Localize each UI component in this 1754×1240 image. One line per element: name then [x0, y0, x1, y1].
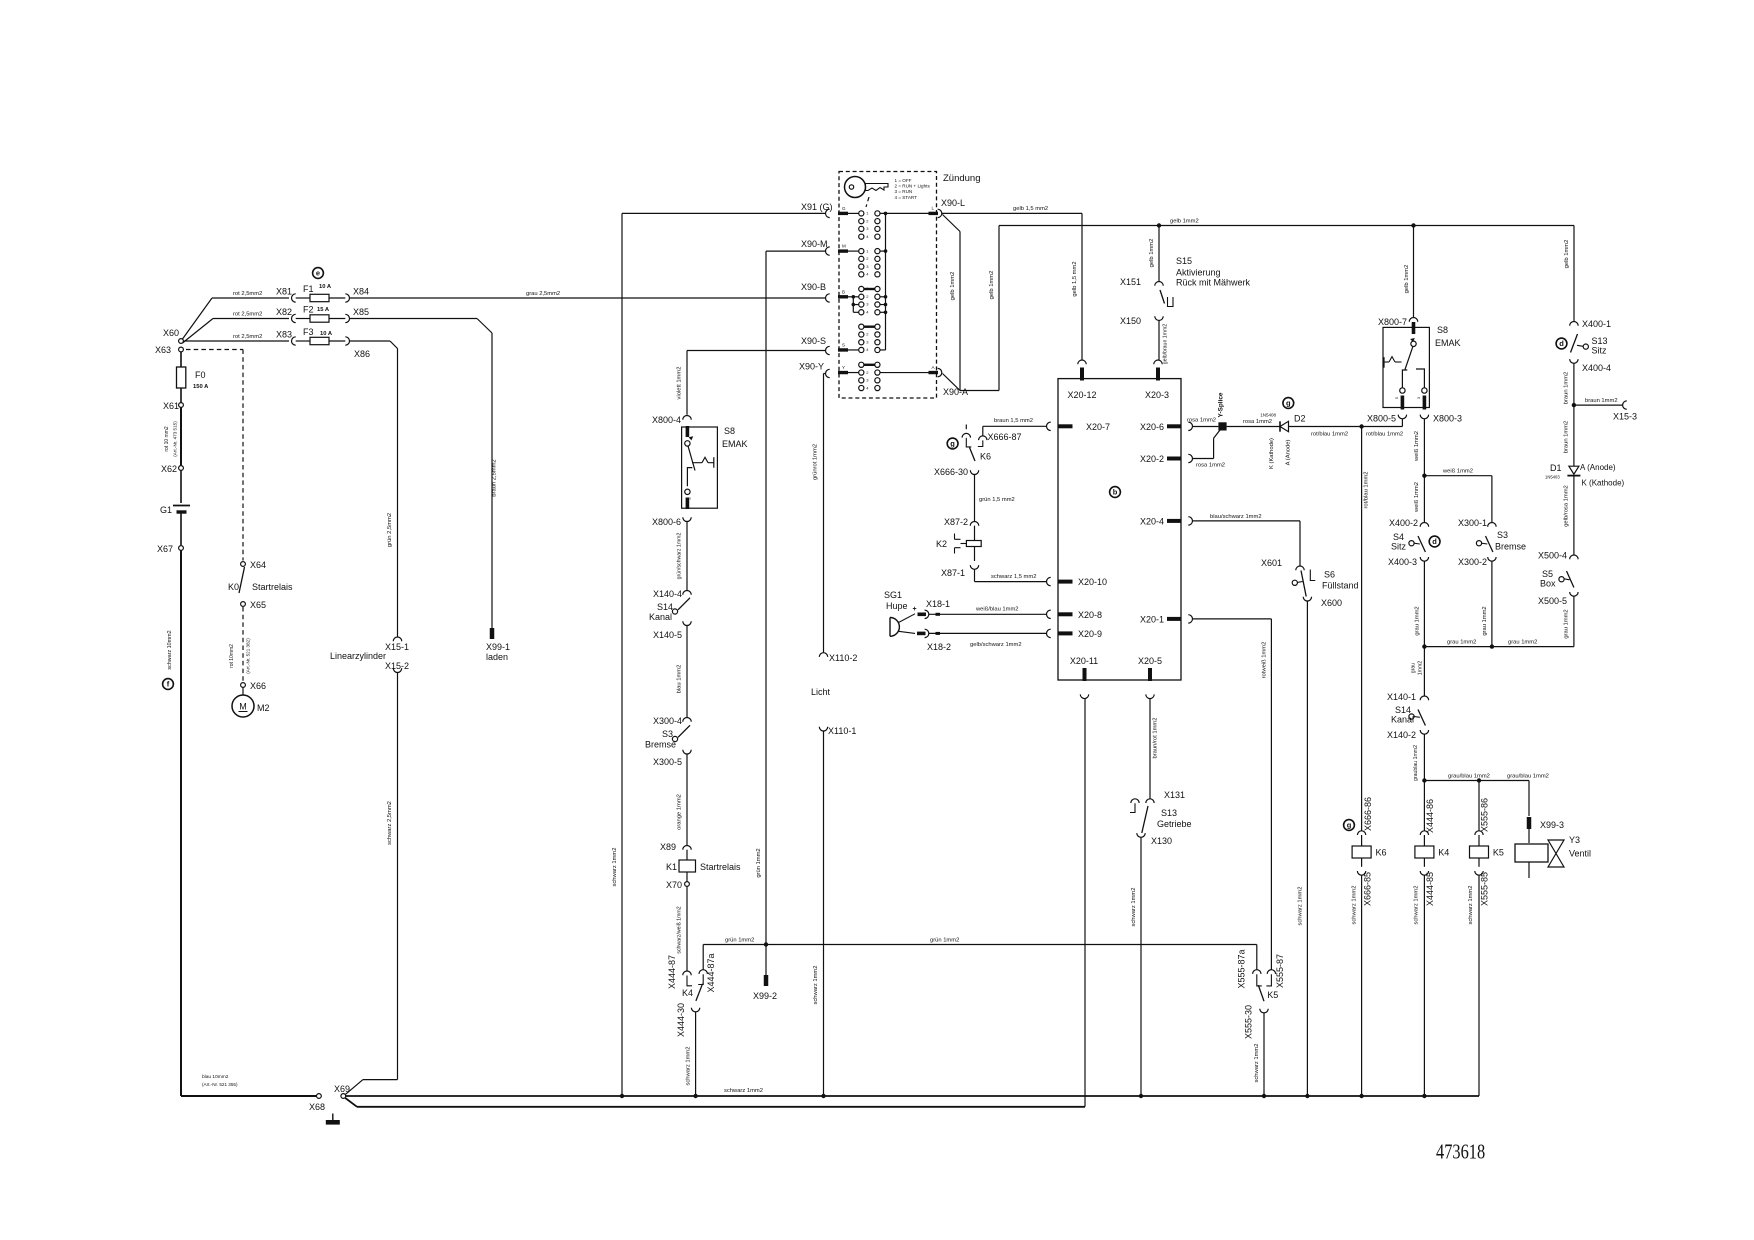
svg-text:1 = OFF: 1 = OFF [895, 178, 912, 183]
wire F3 to X86 [329, 340, 345, 342]
svg-text:Hupe: Hupe [886, 601, 908, 611]
wire X800-5 drop [1401, 419, 1403, 427]
node X65 [241, 602, 246, 607]
svg-text:X68: X68 [309, 1102, 325, 1112]
wire gelb/rosa 1mm2 D1 to X500-4 [1573, 476, 1575, 555]
svg-text:X500-5: X500-5 [1538, 596, 1567, 606]
svg-text:X800-7: X800-7 [1378, 317, 1407, 327]
connector X300-2 [1488, 557, 1496, 561]
svg-text:gelb 1mm2: gelb 1mm2 [1149, 239, 1155, 268]
svg-text:X400-4: X400-4 [1582, 363, 1611, 373]
connector X140-2 [1420, 730, 1428, 734]
connector X800-5 [1398, 415, 1406, 419]
connector X444-87 [683, 971, 691, 975]
dashed wire rot 10mm2 X65 to X66 [242, 607, 244, 682]
svg-text:K2: K2 [936, 539, 947, 549]
svg-text:15 A: 15 A [317, 307, 330, 313]
svg-text:grau 1mm2: grau 1mm2 [1564, 609, 1570, 638]
svg-text:X62: X62 [161, 464, 177, 474]
svg-text:schwarz 1mm2: schwarz 1mm2 [1131, 888, 1137, 927]
connector X555-87 [1267, 970, 1275, 974]
relay contact K6 fixed side [965, 425, 967, 430]
svg-text:X400-1: X400-1 [1582, 319, 1611, 329]
wire weiss 1mm2 X800-3 down [1423, 419, 1425, 523]
svg-text:K4: K4 [1438, 848, 1449, 858]
svg-text:S14: S14 [657, 602, 673, 612]
svg-text:X140-4: X140-4 [653, 589, 682, 599]
svg-text:EMAK: EMAK [722, 439, 748, 449]
pin X20-3 [1154, 360, 1162, 364]
svg-text:graublau 1mm2: graublau 1mm2 [1413, 745, 1419, 781]
svg-text:X99-1: X99-1 [486, 642, 510, 652]
wire schwarz/weiss 1mm2 [686, 887, 688, 971]
wire rot 2,5mm2 X60 to X81 row1 [183, 298, 213, 339]
svg-text:schwarz 1mm2: schwarz 1mm2 [1352, 886, 1358, 925]
svg-text:X20-8: X20-8 [1078, 610, 1102, 620]
connector X666-30 [970, 470, 978, 474]
svg-text:X110-1: X110-1 [828, 726, 856, 736]
wire X90-S to S8 chain [687, 350, 825, 352]
svg-text:X60: X60 [163, 328, 179, 338]
node X66 [241, 683, 246, 688]
svg-text:S3: S3 [662, 729, 673, 739]
svg-text:grau 1mm2: grau 1mm2 [1415, 606, 1421, 635]
svg-text:X20-1: X20-1 [1140, 614, 1164, 624]
svg-text:X300-5: X300-5 [653, 757, 682, 767]
connector X90-L [938, 209, 942, 217]
svg-text:S13: S13 [1161, 808, 1177, 818]
connector X150 [1155, 316, 1163, 320]
connector X90-B [826, 294, 830, 302]
connector X666-86 [1357, 831, 1365, 835]
wire braun/rot 1mm2 X20-5 to X131 [1149, 699, 1151, 799]
Y-Splice [1218, 422, 1226, 430]
wire X62 to battery [180, 471, 182, 503]
svg-text:X444-87a: X444-87a [706, 953, 716, 992]
svg-text:grau/blau 1mm2: grau/blau 1mm2 [1448, 774, 1490, 780]
connector X555-86 [1478, 781, 1480, 831]
svg-text:rotweiß 1mm2: rotweiß 1mm2 [1261, 642, 1267, 679]
svg-text:grau 1mm2: grau 1mm2 [1482, 606, 1488, 635]
svg-text:grau 1mm2: grau 1mm2 [1508, 640, 1537, 646]
pin X20-9 [1047, 629, 1051, 637]
wire gelb/schwarz 1mm2 X18-2 to X20-9 [929, 632, 1046, 634]
svg-text:X20-12: X20-12 [1067, 390, 1096, 400]
circled g near K6 [947, 438, 958, 449]
svg-text:X64: X64 [250, 560, 266, 570]
svg-text:+: + [912, 606, 916, 613]
svg-text:gelb 1,5 mm2: gelb 1,5 mm2 [1013, 206, 1048, 212]
connector X800-6 [683, 517, 691, 521]
svg-text:X131: X131 [1164, 790, 1185, 800]
connector X500-5 [1570, 592, 1578, 596]
svg-text:X300-4: X300-4 [653, 716, 682, 726]
svg-text:X20-3: X20-3 [1145, 390, 1169, 400]
svg-text:X66: X66 [250, 681, 266, 691]
fuse F3 10A [310, 337, 329, 344]
svg-text:X15-1: X15-1 [385, 642, 409, 652]
pin X20-7 [1047, 422, 1051, 430]
connector X83 [292, 337, 296, 345]
svg-text:X444-86: X444-86 [1425, 799, 1435, 833]
svg-text:G1: G1 [160, 505, 172, 515]
wire rosa 1mm2 X20-6 to Y-splice [1193, 426, 1219, 428]
svg-text:X300-1: X300-1 [1458, 518, 1487, 528]
node X64 [241, 562, 246, 567]
wire weiss 1mm2 branch to X300-1 [1424, 475, 1492, 477]
svg-text:rosa 1mm2: rosa 1mm2 [1243, 419, 1272, 425]
wire schwarz 1mm2 X130 to bus [1140, 837, 1142, 1096]
svg-text:X601: X601 [1261, 558, 1282, 568]
svg-text:(Art.-Nr. 521 382): (Art.-Nr. 521 382) [246, 638, 251, 674]
wire X20-1 to X555-87 [1193, 618, 1272, 620]
connector X444-85 [1423, 858, 1425, 867]
svg-text:X20-5: X20-5 [1138, 656, 1162, 666]
wire bottom left to X68 [181, 1095, 316, 1097]
svg-text:grün 2,5mm2: grün 2,5mm2 [387, 513, 393, 547]
svg-text:weiß 1mm2: weiß 1mm2 [1414, 431, 1420, 462]
svg-text:X90-M: X90-M [801, 239, 828, 249]
wire grau 1mm2 X500-5 to grau bus [1573, 596, 1575, 646]
svg-text:Licht: Licht [811, 687, 831, 697]
connector X110-1 [819, 727, 827, 731]
connector X300-1 [1488, 523, 1496, 527]
connector X444-87a [702, 945, 704, 970]
svg-text:rot/blau 1mm2: rot/blau 1mm2 [1366, 432, 1403, 438]
svg-text:weiß 1mm2: weiß 1mm2 [1442, 469, 1473, 475]
svg-text:g: g [1286, 399, 1291, 408]
connector X86 [345, 337, 349, 345]
svg-text:S8: S8 [724, 426, 735, 436]
svg-text:S6: S6 [1324, 570, 1335, 580]
connector X444-86 [1420, 831, 1428, 835]
svg-text:grün 1mm2: grün 1mm2 [725, 938, 754, 944]
circled g near K6 coil [1344, 820, 1355, 831]
node X70 [685, 882, 690, 887]
svg-text:weiß 1mm2: weiß 1mm2 [1414, 482, 1420, 513]
switch S5 Box [1567, 571, 1574, 588]
svg-text:gelb 1mm2: gelb 1mm2 [989, 271, 995, 300]
svg-text:X800-5: X800-5 [1367, 414, 1396, 424]
terminal X99-1 laden [490, 628, 495, 639]
svg-text:G: G [842, 206, 846, 211]
svg-text:gelb 1,5 mm2: gelb 1,5 mm2 [1072, 261, 1078, 296]
ignition terminal L [929, 212, 939, 215]
svg-text:grünrot 1mm2: grünrot 1mm2 [813, 444, 819, 480]
diode D2 1N5408 [1280, 421, 1289, 431]
terminal X99-3 and valve Y3 [1528, 781, 1530, 817]
junction dots on upper bus [620, 1094, 624, 1098]
wire weiss/blau 1mm2 X18-1 to X20-8 [929, 613, 1046, 615]
svg-text:10 A: 10 A [319, 284, 332, 290]
wire braun 1mm2 branch to X15-3 [1574, 404, 1623, 406]
svg-text:schwarz 1mm2: schwarz 1mm2 [1297, 887, 1303, 926]
svg-text:X15-3: X15-3 [1613, 412, 1637, 422]
connector X87-1 [974, 547, 976, 562]
svg-text:braun 1,5 mm2: braun 1,5 mm2 [994, 418, 1033, 424]
wire schwarz 1mm2 X110-1 to bus [823, 731, 825, 1096]
svg-text:braun 1mm2: braun 1mm2 [1564, 421, 1570, 454]
svg-text:Bremse: Bremse [1495, 542, 1526, 552]
connector X400-4 [1570, 359, 1578, 363]
wire X91 G to left riser [622, 212, 825, 214]
svg-text:X82: X82 [276, 307, 292, 317]
svg-text:X84: X84 [353, 287, 369, 297]
svg-text:Füllstand: Füllstand [1322, 581, 1359, 591]
svg-text:rot 2,5mm2: rot 2,5mm2 [233, 291, 262, 297]
ignition terminal group G [859, 211, 864, 216]
wire gelb 1mm2 top bus [999, 225, 1574, 227]
connector X140-1 [1420, 696, 1428, 700]
terminal X99-2 [764, 975, 769, 986]
switch S8 EMAK right box [1412, 322, 1416, 334]
svg-text:g: g [1347, 821, 1352, 830]
svg-text:X20-11: X20-11 [1070, 656, 1098, 666]
svg-text:S5: S5 [1542, 569, 1553, 579]
switch S13 Getriebe [1142, 806, 1148, 833]
wire gelb 1,5mm2 X90-L to X20-12 [942, 212, 1082, 214]
svg-text:grau 2,5mm2: grau 2,5mm2 [526, 291, 560, 297]
svg-text:K5: K5 [1267, 990, 1278, 1000]
svg-text:S4: S4 [1393, 532, 1404, 542]
svg-text:schwarz 1,5 mm2: schwarz 1,5 mm2 [991, 574, 1036, 580]
svg-text:X151: X151 [1120, 277, 1141, 287]
svg-text:X600: X600 [1321, 598, 1342, 608]
svg-text:X81: X81 [276, 287, 292, 297]
svg-text:K1: K1 [666, 862, 677, 872]
svg-text:S8: S8 [1437, 325, 1448, 335]
svg-text:Kanal: Kanal [649, 612, 672, 622]
node X68 [317, 1094, 322, 1099]
svg-text:S3: S3 [1497, 530, 1508, 540]
svg-text:X800-3: X800-3 [1433, 414, 1462, 424]
wire violett 1mm2 down to X800-4 [686, 351, 688, 415]
svg-text:X444-30: X444-30 [676, 1003, 686, 1037]
svg-text:violett 1mm2: violett 1mm2 [677, 367, 683, 400]
svg-text:X444-87: X444-87 [667, 955, 677, 989]
svg-text:rosa 1mm2: rosa 1mm2 [1187, 418, 1216, 424]
connector X90-M [826, 247, 830, 255]
svg-text:X800-4: X800-4 [652, 415, 681, 425]
svg-text:e: e [316, 269, 320, 278]
connector X89 [683, 846, 691, 850]
svg-text:X86: X86 [354, 349, 370, 359]
wire rot 2,5mm2 X60 to X82 row2 [183, 319, 214, 344]
svg-text:gelb 1mm2: gelb 1mm2 [950, 272, 956, 301]
connector X666-85 [1361, 858, 1363, 867]
svg-text:grün/schwarz 1mm2: grün/schwarz 1mm2 [677, 533, 683, 580]
dashed wire X63 to X64 [186, 349, 243, 351]
svg-text:A: A [932, 365, 935, 370]
svg-text:3 = RUN: 3 = RUN [895, 189, 913, 194]
wire gelb/braun 1mm2 X150 to X20-3 [1158, 321, 1160, 360]
svg-text:gelb/braun 1mm2: gelb/braun 1mm2 [1163, 324, 1169, 364]
connector X110-2 [819, 653, 827, 657]
connector X555-30 [1260, 1009, 1268, 1013]
wire X90-M to riser x766 gruen [766, 250, 825, 252]
svg-text:X87-1: X87-1 [941, 568, 965, 578]
ignition terminal group M [859, 249, 864, 254]
terminal X18-2 [917, 632, 926, 636]
wire grau 1mm2 X300-2 down [1491, 561, 1493, 646]
wire schwarz 1mm2 X555-85 to bus [1478, 875, 1480, 1096]
svg-text:X130: X130 [1151, 836, 1172, 846]
fuse F2 15A [310, 315, 329, 322]
wire schwarz 1mm2 X600 to bus [1306, 601, 1308, 1096]
svg-text:X20-7: X20-7 [1086, 422, 1110, 432]
svg-text:X666-87: X666-87 [988, 432, 1022, 442]
circled e [313, 268, 324, 279]
svg-text:Bremse: Bremse [645, 740, 676, 750]
svg-text:schwarz 1mm2: schwarz 1mm2 [813, 966, 819, 1005]
motor M2 [242, 688, 244, 695]
svg-text:rot 2,5mm2: rot 2,5mm2 [233, 334, 262, 340]
connector X90-Y [826, 369, 830, 377]
wire gelb 1mm2 to X400-1 [1573, 226, 1575, 322]
svg-text:Y: Y [842, 365, 845, 370]
svg-text:D2: D2 [1294, 414, 1306, 424]
connector X444-30 [691, 1008, 699, 1012]
connector X601 [1296, 566, 1304, 570]
svg-text:10 A: 10 A [320, 331, 333, 337]
bus grau 1mm2 [1424, 646, 1574, 648]
svg-text:F3: F3 [303, 327, 314, 337]
svg-text:X90-S: X90-S [801, 336, 826, 346]
svg-text:rot/blau 1mm2: rot/blau 1mm2 [1311, 432, 1348, 438]
wire grau/blau 1mm2 branch right [1424, 780, 1529, 782]
ignition terminal group Y [859, 362, 864, 367]
ground symbol [332, 1114, 334, 1121]
svg-text:X800-6: X800-6 [652, 517, 681, 527]
svg-text:(Art.-Nr. 473 515): (Art.-Nr. 473 515) [173, 421, 178, 457]
connector X131 aux [1131, 799, 1139, 803]
svg-text:gelb/rosa 1mm2: gelb/rosa 1mm2 [1564, 485, 1570, 527]
svg-text:X20-9: X20-9 [1078, 629, 1102, 639]
svg-text:X70: X70 [666, 880, 682, 890]
svg-text:schwarz 1mm2: schwarz 1mm2 [686, 1047, 692, 1086]
wire schwarz 10mm2 X67 down to bottom [180, 551, 182, 1096]
relay coil K1 Startrelais [686, 850, 688, 860]
pin X20-12 [1078, 360, 1086, 364]
connector block X20 box [1058, 379, 1181, 680]
node X62 [179, 466, 184, 471]
svg-text:schwarz 10mm2: schwarz 10mm2 [167, 630, 173, 669]
svg-text:X87-2: X87-2 [944, 517, 968, 527]
connector X130 [1137, 833, 1145, 837]
svg-text:schwarz 1mm2: schwarz 1mm2 [1414, 886, 1420, 925]
wire grau 2,5mm2 X84 to X90-B [350, 297, 826, 299]
svg-text:EMAK: EMAK [1435, 338, 1461, 348]
ignition terminal group S [859, 324, 864, 329]
switch S6 Fuellstand [1301, 571, 1306, 597]
wire to fuse F1 [296, 297, 310, 299]
svg-text:X89: X89 [660, 842, 676, 852]
connector X140-5 [683, 621, 691, 625]
svg-text:S15: S15 [1176, 256, 1192, 266]
wire schwarz 1mm2 X666-85 to bus [1361, 875, 1363, 1096]
connector X500-4 [1570, 555, 1578, 559]
svg-text:gelb 1mm2: gelb 1mm2 [1564, 240, 1570, 269]
bus schwarz 1mm2 upper [346, 1095, 1479, 1097]
svg-text:Startrelais: Startrelais [252, 582, 293, 592]
fuse F0 150A with leads [180, 352, 182, 367]
wire F1 to X84 [329, 297, 345, 299]
svg-text:X555-87: X555-87 [1275, 954, 1285, 988]
svg-text:X140-5: X140-5 [653, 630, 682, 640]
relay contact K6 blade [970, 448, 976, 462]
svg-text:X18-2: X18-2 [927, 642, 951, 652]
svg-text:schwarz 1mm2: schwarz 1mm2 [724, 1088, 763, 1094]
svg-text:K6: K6 [980, 452, 991, 462]
connector X15-2 [393, 668, 401, 672]
svg-text:grau: grau [1411, 663, 1417, 673]
svg-text:X15-2: X15-2 [385, 661, 409, 671]
svg-text:2 = RUN + Lights: 2 = RUN + Lights [895, 184, 931, 189]
svg-text:Rück mit Mähwerk: Rück mit Mähwerk [1176, 278, 1251, 288]
ignition internal bus [880, 212, 929, 214]
svg-text:X90-A: X90-A [943, 387, 968, 397]
svg-text:K (Kathode): K (Kathode) [1269, 438, 1275, 469]
svg-text:X85: X85 [353, 307, 369, 317]
connector X151 [1155, 282, 1163, 286]
wire schwarz 1,5mm2 X87-1 to X20-10 [974, 569, 976, 581]
pin X20-11 [1083, 668, 1087, 681]
pin X20-10 [1047, 577, 1051, 585]
wire gruen/schwarz 1mm2 [686, 522, 688, 591]
pin X20-5 [1148, 668, 1152, 681]
svg-text:braun 1mm2: braun 1mm2 [1585, 398, 1618, 404]
svg-text:Zündung: Zündung [943, 173, 981, 184]
connector X800-7 [1409, 318, 1417, 322]
svg-text:1mm2: 1mm2 [1418, 661, 1424, 676]
connector X15-1 Linearzylinder [393, 637, 401, 641]
wire gelb 1mm2 to X151 [1158, 226, 1160, 282]
svg-text:B: B [842, 289, 845, 294]
svg-text:473618: 473618 [1436, 1141, 1485, 1164]
svg-text:X18-1: X18-1 [926, 599, 950, 609]
wire schwarz 2,5mm2 X15-2 down to X69 [397, 673, 399, 1080]
wire X90-Y to Licht riser [824, 373, 826, 375]
diode D1 1N5403 [1569, 466, 1579, 474]
connector X82 [292, 314, 296, 322]
wire rot/blau 1mm2 to X666-86 [1361, 427, 1363, 831]
svg-text:X83: X83 [276, 330, 292, 340]
svg-text:orange 1mm2: orange 1mm2 [677, 794, 683, 830]
svg-text:X20-4: X20-4 [1140, 516, 1164, 526]
svg-text:blau 1mm2: blau 1mm2 [677, 665, 683, 694]
relay coil K6 [1361, 835, 1363, 846]
wire gruen 2,5mm2 X86 to X15-1 [350, 340, 391, 342]
relay contact K0 Startrelais [239, 567, 245, 593]
svg-text:X444-85: X444-85 [1425, 872, 1435, 906]
connector X555-87a [1256, 945, 1258, 970]
svg-text:X20-10: X20-10 [1078, 577, 1107, 587]
svg-text:F0: F0 [195, 370, 206, 380]
svg-text:rot 10 mm2: rot 10 mm2 [164, 426, 170, 452]
connector X87-2 [970, 522, 978, 526]
svg-text:braun 2,5mm2: braun 2,5mm2 [492, 459, 498, 496]
svg-text:X20-6: X20-6 [1140, 422, 1164, 432]
svg-text:X555-86: X555-86 [1480, 798, 1490, 832]
drawing number 473618 [1436, 1141, 1485, 1164]
relay coil K5 [1478, 835, 1480, 846]
svg-text:laden: laden [486, 652, 508, 662]
connector X555-85 [1478, 858, 1480, 867]
wire schwarz 1mm2 X444-85 to bus [1423, 875, 1425, 1096]
connector X15-3 [1623, 401, 1627, 409]
switch S8 EMAK left box [686, 426, 690, 437]
pin X20-2 [1188, 454, 1192, 462]
